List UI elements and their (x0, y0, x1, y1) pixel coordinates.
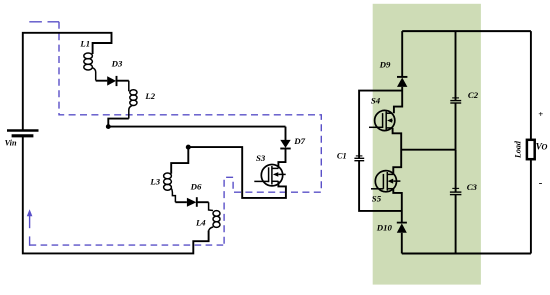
svg-text:D6: D6 (190, 182, 202, 192)
top rail (402, 30, 531, 32)
svg-text:C2: C2 (468, 90, 479, 100)
svg-text:L4: L4 (195, 217, 206, 227)
inductor L4 (209, 202, 220, 231)
svg-text:+: + (538, 109, 543, 119)
diode D10 (397, 222, 407, 224)
arrow shaft (29, 215, 31, 229)
inductor L2 (129, 81, 137, 119)
wire node B to L3 (171, 147, 188, 174)
diode D6 (187, 198, 197, 207)
dashed corner piece left (29, 236, 31, 245)
svg-text:D9: D9 (379, 59, 391, 69)
load resistor (530, 31, 532, 140)
svg-text:C1: C1 (337, 151, 347, 160)
wire L1 to D3 (96, 80, 108, 82)
svg-text:S5: S5 (372, 194, 382, 204)
wire middle node to C2 C3 junction (401, 149, 455, 151)
capacitor C1 (356, 155, 363, 157)
svg-text:D7: D7 (293, 136, 305, 146)
svg-text:S4: S4 (371, 96, 381, 106)
svg-text:D3: D3 (111, 58, 123, 68)
wire S4 source to S5 drain (393, 128, 402, 175)
wire C1 top (359, 91, 402, 159)
mosfet S3 (254, 165, 285, 186)
svg-text:O: O (542, 143, 548, 152)
svg-text:-: - (539, 177, 543, 189)
green converter region (373, 4, 481, 285)
dashed bottom segment (30, 244, 225, 246)
diode D3 (107, 76, 116, 85)
svg-text:C3: C3 (467, 182, 478, 192)
dashed path arrowhead (27, 209, 33, 216)
svg-text:L1: L1 (79, 38, 90, 48)
svg-text:L3: L3 (149, 177, 160, 187)
node B dot (186, 145, 191, 150)
wire L4 bottom return to battery (23, 136, 209, 254)
wire battery top to L1 (23, 33, 112, 131)
wire S5 source to D10 (393, 189, 402, 223)
inductor L1 (84, 53, 96, 81)
wire L2 to node A (108, 119, 129, 127)
wire main node A to D7 (108, 126, 285, 128)
svg-text:D10: D10 (376, 223, 393, 233)
capacitor C2 (455, 31, 457, 100)
mosfet S5 (371, 171, 400, 192)
bottom rail (402, 253, 531, 255)
svg-text:Vin: Vin (5, 138, 17, 147)
svg-text:Load: Load (514, 140, 523, 159)
node A dot (106, 124, 111, 129)
dashed boundary path (29, 21, 59, 23)
battery Vin (7, 131, 39, 136)
wire node B to S3 source loop (188, 147, 286, 198)
dashed main loop (59, 22, 321, 245)
svg-text:S3: S3 (256, 153, 266, 163)
svg-text:L2: L2 (144, 91, 155, 101)
diode D9 (401, 31, 403, 77)
wire L3 to D6 (175, 201, 187, 203)
mosfet S4 (369, 110, 395, 130)
inductor L3 (164, 173, 176, 202)
diode D7 (285, 127, 287, 141)
capacitor C3 (455, 150, 457, 192)
wire C1 bottom (359, 161, 402, 211)
